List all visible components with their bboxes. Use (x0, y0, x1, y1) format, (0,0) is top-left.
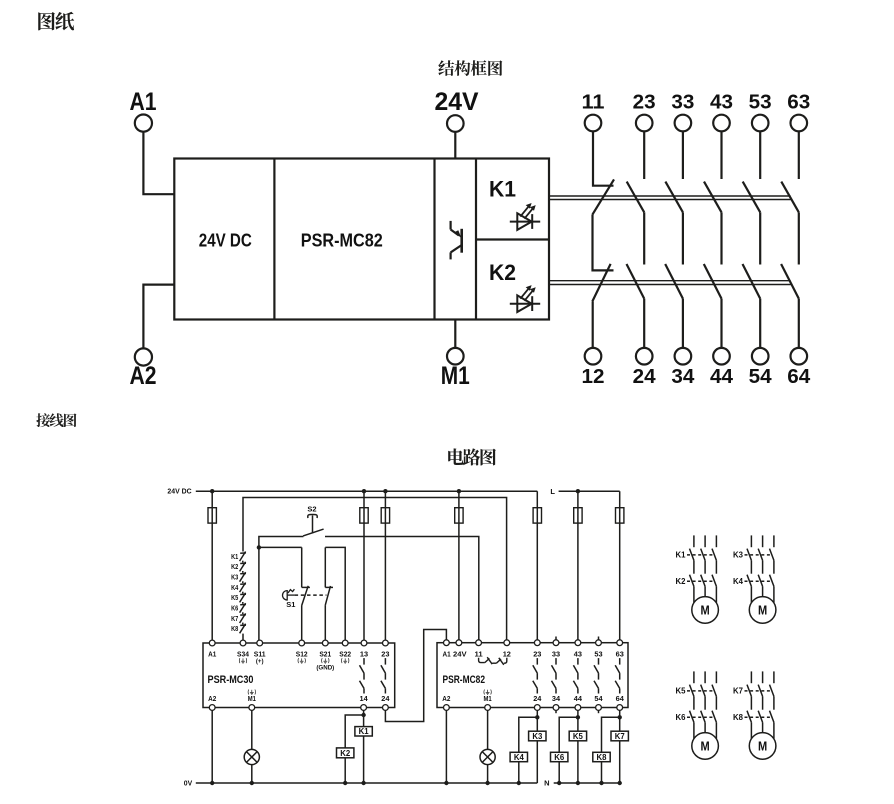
svg-text:S2: S2 (307, 504, 316, 513)
svg-text:33: 33 (552, 650, 560, 659)
wire 24V to module (454, 132, 456, 159)
svg-text:K5: K5 (676, 687, 687, 696)
svg-text:M: M (701, 739, 710, 754)
e-stop S1 mushroom actuator (283, 589, 295, 600)
contact 11-12 internal NC pair (479, 657, 507, 665)
contact K1 (ladder) (240, 552, 246, 563)
contact K8 (ladder) (240, 624, 246, 634)
svg-text:K4: K4 (231, 583, 239, 592)
svg-text:24: 24 (533, 694, 542, 703)
svg-text:43: 43 (574, 650, 582, 659)
svg-text:K1: K1 (676, 551, 687, 560)
svg-text:L: L (550, 487, 555, 496)
svg-text:K1: K1 (489, 176, 516, 201)
wire 578 output to coil K5 (577, 710, 579, 731)
divider logic section (433, 159, 435, 320)
linkage K4 dashed (745, 580, 773, 582)
rail 24V DC (196, 490, 538, 492)
svg-text:43: 43 (710, 91, 733, 114)
motor branch M2: contactor K3 contacts (747, 535, 774, 573)
svg-text:S21: S21 (319, 650, 331, 659)
svg-text:K3: K3 (231, 573, 238, 582)
contact 11-12 NC switch pair (592, 131, 614, 348)
svg-text:K8: K8 (597, 753, 608, 762)
linkage K6 dashed (687, 716, 715, 718)
svg-text:K4: K4 (733, 577, 744, 586)
svg-text:A2: A2 (442, 694, 450, 703)
contact 43-44 NO switch pair (704, 131, 722, 348)
supply drop wire 63 (619, 491, 621, 640)
supply drop wire 13 (363, 491, 365, 640)
svg-text:63: 63 (616, 650, 624, 659)
rail 0V (196, 782, 538, 784)
fuse F3 (381, 508, 389, 523)
svg-text:K1: K1 (231, 552, 238, 561)
title: 结构框图 (block diagram) (438, 60, 502, 76)
wire branch to coil K6 (559, 717, 578, 752)
svg-text:K8: K8 (733, 713, 744, 722)
contact column 23-24 terminals (636, 115, 653, 365)
svg-text:33: 33 (671, 91, 694, 114)
stub terminal 33 (555, 637, 557, 643)
contact K6 (ladder) (240, 603, 246, 614)
mechanical linkage K2 contacts (549, 281, 791, 285)
svg-text:24: 24 (381, 694, 390, 703)
linkage K8 dashed (745, 716, 773, 718)
wire K8 to rail (601, 762, 603, 783)
svg-text:24V: 24V (435, 88, 479, 116)
wire lamp to 0V (251, 765, 253, 783)
terminal 24V top (447, 115, 464, 132)
wire lamp2 to 0V (487, 765, 489, 783)
svg-text:24: 24 (633, 365, 657, 388)
motor M (M1) (692, 597, 719, 624)
transistor output driver (451, 221, 462, 260)
contact column 11-12 terminals (585, 115, 602, 365)
pushbutton S2 (303, 514, 324, 535)
svg-text:K5: K5 (573, 732, 584, 741)
motor branch M3: contactor K5 contacts (690, 671, 717, 709)
stub terminal 54 (598, 708, 600, 714)
wire 537 output to coil K3 (536, 710, 538, 731)
contact K5 (ladder) (240, 593, 246, 604)
contact column 53-54 terminals (752, 115, 769, 365)
terminals MC82 bottom (444, 705, 623, 711)
wire K7 to rail (619, 741, 621, 783)
wire S11-S12 down (301, 547, 303, 587)
svg-text:24V: 24V (453, 650, 467, 659)
wire M1 to module (454, 320, 456, 348)
wire A1 to module (143, 132, 174, 194)
svg-text:53: 53 (749, 91, 772, 114)
module PSR-MC30 outline (203, 643, 395, 708)
svg-text:34: 34 (671, 365, 695, 388)
motor M (M4) (749, 733, 776, 760)
divider K1/K2 (476, 238, 549, 240)
wire K3 to rail (536, 741, 538, 783)
junction dots N rail (557, 781, 622, 785)
supply drop wire A1(MC30) (211, 491, 213, 640)
rail L (559, 490, 620, 492)
svg-text:M1: M1 (248, 694, 256, 703)
relay coil K6 (551, 752, 568, 761)
svg-text:K4: K4 (514, 753, 525, 762)
contactor K4 contacts (747, 575, 774, 603)
contact 13-14 internal (360, 658, 365, 693)
svg-text:PSR-MC82: PSR-MC82 (301, 230, 383, 251)
supply drop wire 43 (577, 491, 579, 640)
earth symbol above M1 (MC30) (248, 690, 255, 695)
title: 电路图 (circuit diagram) (448, 448, 496, 465)
svg-text:54: 54 (749, 365, 773, 388)
terminals MC30 bottom (209, 705, 388, 711)
svg-text:K5: K5 (231, 593, 238, 602)
svg-text:53: 53 (594, 650, 602, 659)
contact column 43-44 terminals (713, 115, 730, 365)
svg-text:M: M (701, 603, 710, 618)
svg-text:PSR-MC82: PSR-MC82 (443, 674, 486, 686)
rail N (554, 782, 620, 784)
svg-text:23: 23 (533, 650, 541, 659)
contact K4 (ladder) (240, 583, 246, 594)
title: 接线图 (wiring diagram) (36, 413, 76, 427)
relay coil K7 (611, 731, 628, 741)
e-stop S1 linkage dashed (295, 594, 327, 596)
svg-text:K1: K1 (359, 727, 370, 736)
contact 23-24 internal (381, 658, 386, 693)
contactor K8 contacts (747, 711, 774, 739)
contact column 556 internal (MC82) (552, 658, 557, 693)
supply drop wire 23(MC82) (536, 491, 538, 640)
contact column 33-34 terminals (675, 115, 692, 365)
svg-text:44: 44 (574, 694, 583, 703)
wire branch to coil K8 (602, 717, 620, 752)
contact 33-34 NO switch pair (665, 131, 683, 348)
relay coil K2 (337, 748, 354, 758)
module outline PSR-MC82 block (174, 159, 549, 320)
junction dots top rails (210, 489, 580, 493)
svg-text:S22: S22 (339, 650, 351, 659)
svg-text:M: M (758, 739, 767, 754)
contact K3 (ladder) (240, 572, 246, 583)
contactor K6 contacts (690, 711, 717, 739)
svg-text:K6: K6 (554, 753, 565, 762)
fuse F1 (208, 508, 216, 523)
linkage K2 dashed (687, 580, 715, 582)
svg-text:23: 23 (633, 91, 656, 114)
svg-text:S12: S12 (296, 650, 308, 659)
svg-text:K6: K6 (676, 713, 687, 722)
fuse F2 (360, 508, 368, 523)
supply drop wire 23 (384, 491, 386, 640)
stub terminal 34 (555, 708, 557, 714)
svg-text:M1: M1 (441, 362, 470, 390)
svg-text:K7: K7 (231, 614, 238, 623)
motor branch M4: contactor K7 contacts (747, 671, 774, 709)
wire S22 branch (325, 547, 345, 643)
motor branch M1: contactor K1 contacts (690, 535, 717, 573)
pushbutton S2 wire left (259, 537, 304, 548)
e-stop S1 contact 1 (NC) (302, 586, 310, 644)
pushbutton S2 wire right to 11 (325, 537, 479, 641)
svg-text:K7: K7 (733, 687, 743, 696)
svg-text:11: 11 (475, 650, 483, 659)
svg-text:A2: A2 (208, 694, 216, 703)
stub terminal 53 (598, 637, 600, 643)
svg-text:K3: K3 (733, 551, 744, 560)
contact column 620 internal (MC82) (615, 658, 620, 693)
svg-text:S1: S1 (286, 600, 295, 609)
wire K6 to rail (558, 762, 560, 783)
svg-text:K2: K2 (489, 260, 516, 285)
svg-text:A1: A1 (208, 650, 216, 659)
svg-text:(+): (+) (256, 658, 264, 665)
wire A2(MC30) to 0V (211, 710, 213, 783)
wire MC30-24 to MC82-A1 (385, 630, 446, 722)
contactor K2 contacts (690, 575, 717, 603)
linkage K5 dashed (687, 690, 715, 692)
wire 14 branch to K2 (345, 715, 363, 748)
svg-text:S34: S34 (237, 650, 250, 659)
contact 53-54 NO switch pair (743, 131, 761, 348)
lamp H1 (244, 749, 259, 764)
svg-text:K7: K7 (615, 732, 625, 741)
contact column 598 internal (MC82) (594, 658, 599, 693)
lamp H2 (480, 749, 495, 764)
wire A2(MC82) to 0V (445, 710, 447, 783)
relay K2 LED indicator (510, 285, 540, 312)
e-stop S1 contact 2 (NC) (325, 586, 333, 644)
wire K5 to rail (577, 741, 579, 783)
svg-text:64: 64 (616, 694, 625, 703)
svg-text:14: 14 (360, 694, 369, 703)
divider 24VDC section (273, 159, 275, 320)
linkage K1 dashed (687, 554, 715, 556)
motor M (M3) (692, 733, 719, 760)
svg-text:K2: K2 (231, 562, 238, 571)
svg-text:54: 54 (594, 694, 603, 703)
contact 63-64 NO switch pair (781, 131, 799, 348)
svg-text:24V DC: 24V DC (167, 487, 192, 496)
terminal A1 (135, 115, 152, 132)
relay coil K8 (593, 752, 610, 761)
contact K2 (ladder) (240, 562, 246, 573)
wire S11 branch (259, 547, 302, 643)
fuse F7 (616, 508, 624, 523)
contact column 537 internal (MC82) (533, 658, 538, 693)
svg-text:12: 12 (582, 365, 605, 388)
contact K7 (ladder) (240, 613, 246, 624)
svg-text:11: 11 (582, 91, 605, 114)
junction dots output branches (361, 713, 622, 720)
svg-text:A1: A1 (443, 650, 451, 659)
title: 图纸 (drawings) (38, 12, 74, 31)
relay coil K4 (510, 752, 527, 761)
svg-text:63: 63 (787, 91, 810, 114)
fuse F5 (533, 508, 541, 523)
wire branch to coil K4 (519, 717, 538, 752)
relay K1 LED indicator (510, 203, 540, 230)
svg-text:K3: K3 (532, 732, 543, 741)
wire K1 to 0V (363, 736, 365, 783)
mechanical linkage K1 contacts (549, 196, 791, 200)
svg-text:K2: K2 (340, 749, 351, 758)
divider relay section (475, 159, 477, 320)
supply drop wire 24V(MC82) (458, 491, 460, 640)
module PSR-MC82 outline (437, 643, 628, 708)
earth symbol above M1 (MC82) (484, 690, 491, 695)
wire A2 to module (143, 285, 174, 349)
wire M1(MC30) to lamp (251, 710, 253, 749)
svg-text:K6: K6 (231, 604, 238, 613)
wire K4 to rail (518, 762, 520, 783)
svg-text:K8: K8 (231, 624, 238, 633)
terminals MC82 top (444, 640, 623, 646)
svg-text:24V DC: 24V DC (199, 230, 252, 251)
terminals MC30 top (209, 640, 388, 646)
svg-text:(GND): (GND) (316, 665, 334, 672)
fuse F4 (455, 508, 463, 523)
svg-text:PSR-MC30: PSR-MC30 (208, 674, 254, 686)
svg-text:44: 44 (710, 365, 734, 388)
node S11 junction (257, 545, 261, 549)
svg-text:0V: 0V (184, 779, 192, 788)
svg-text:A2: A2 (130, 362, 157, 390)
wire 620 output to coil K7 (619, 710, 621, 731)
wire 14 to K1 (363, 710, 365, 726)
terminal A2 (135, 348, 152, 365)
wire S22-S21 down (324, 547, 326, 587)
svg-text:N: N (544, 779, 549, 788)
svg-text:23: 23 (381, 650, 389, 659)
relay coil K5 (569, 731, 586, 741)
relay coil K3 (529, 731, 546, 741)
wire ladder to S34 (242, 634, 244, 644)
feedback wire S34 to 12 (243, 498, 507, 641)
svg-text:12: 12 (503, 650, 511, 659)
svg-text:M: M (758, 603, 767, 618)
contact column 578 internal (MC82) (573, 658, 578, 693)
wire K2 to 0V (344, 758, 346, 783)
svg-text:M1: M1 (484, 694, 492, 703)
contact 23-24 NO switch pair (627, 131, 645, 348)
pin symbols MC30 (239, 658, 349, 672)
svg-text:34: 34 (552, 694, 561, 703)
svg-text:64: 64 (787, 365, 811, 388)
svg-text:13: 13 (360, 650, 368, 659)
junction dots 0V rail (210, 781, 521, 785)
motor M (M2) (749, 597, 776, 624)
svg-text:K2: K2 (676, 577, 687, 586)
wire M1(MC82) to lamp (487, 710, 489, 749)
relay coil K1 (355, 727, 372, 736)
svg-text:A1: A1 (130, 88, 157, 116)
linkage K3 dashed (745, 554, 773, 556)
contact column 63-64 terminals (791, 115, 808, 365)
terminal M1 bottom (447, 348, 464, 365)
linkage K7 dashed (745, 690, 773, 692)
fuse F6 (574, 508, 582, 523)
